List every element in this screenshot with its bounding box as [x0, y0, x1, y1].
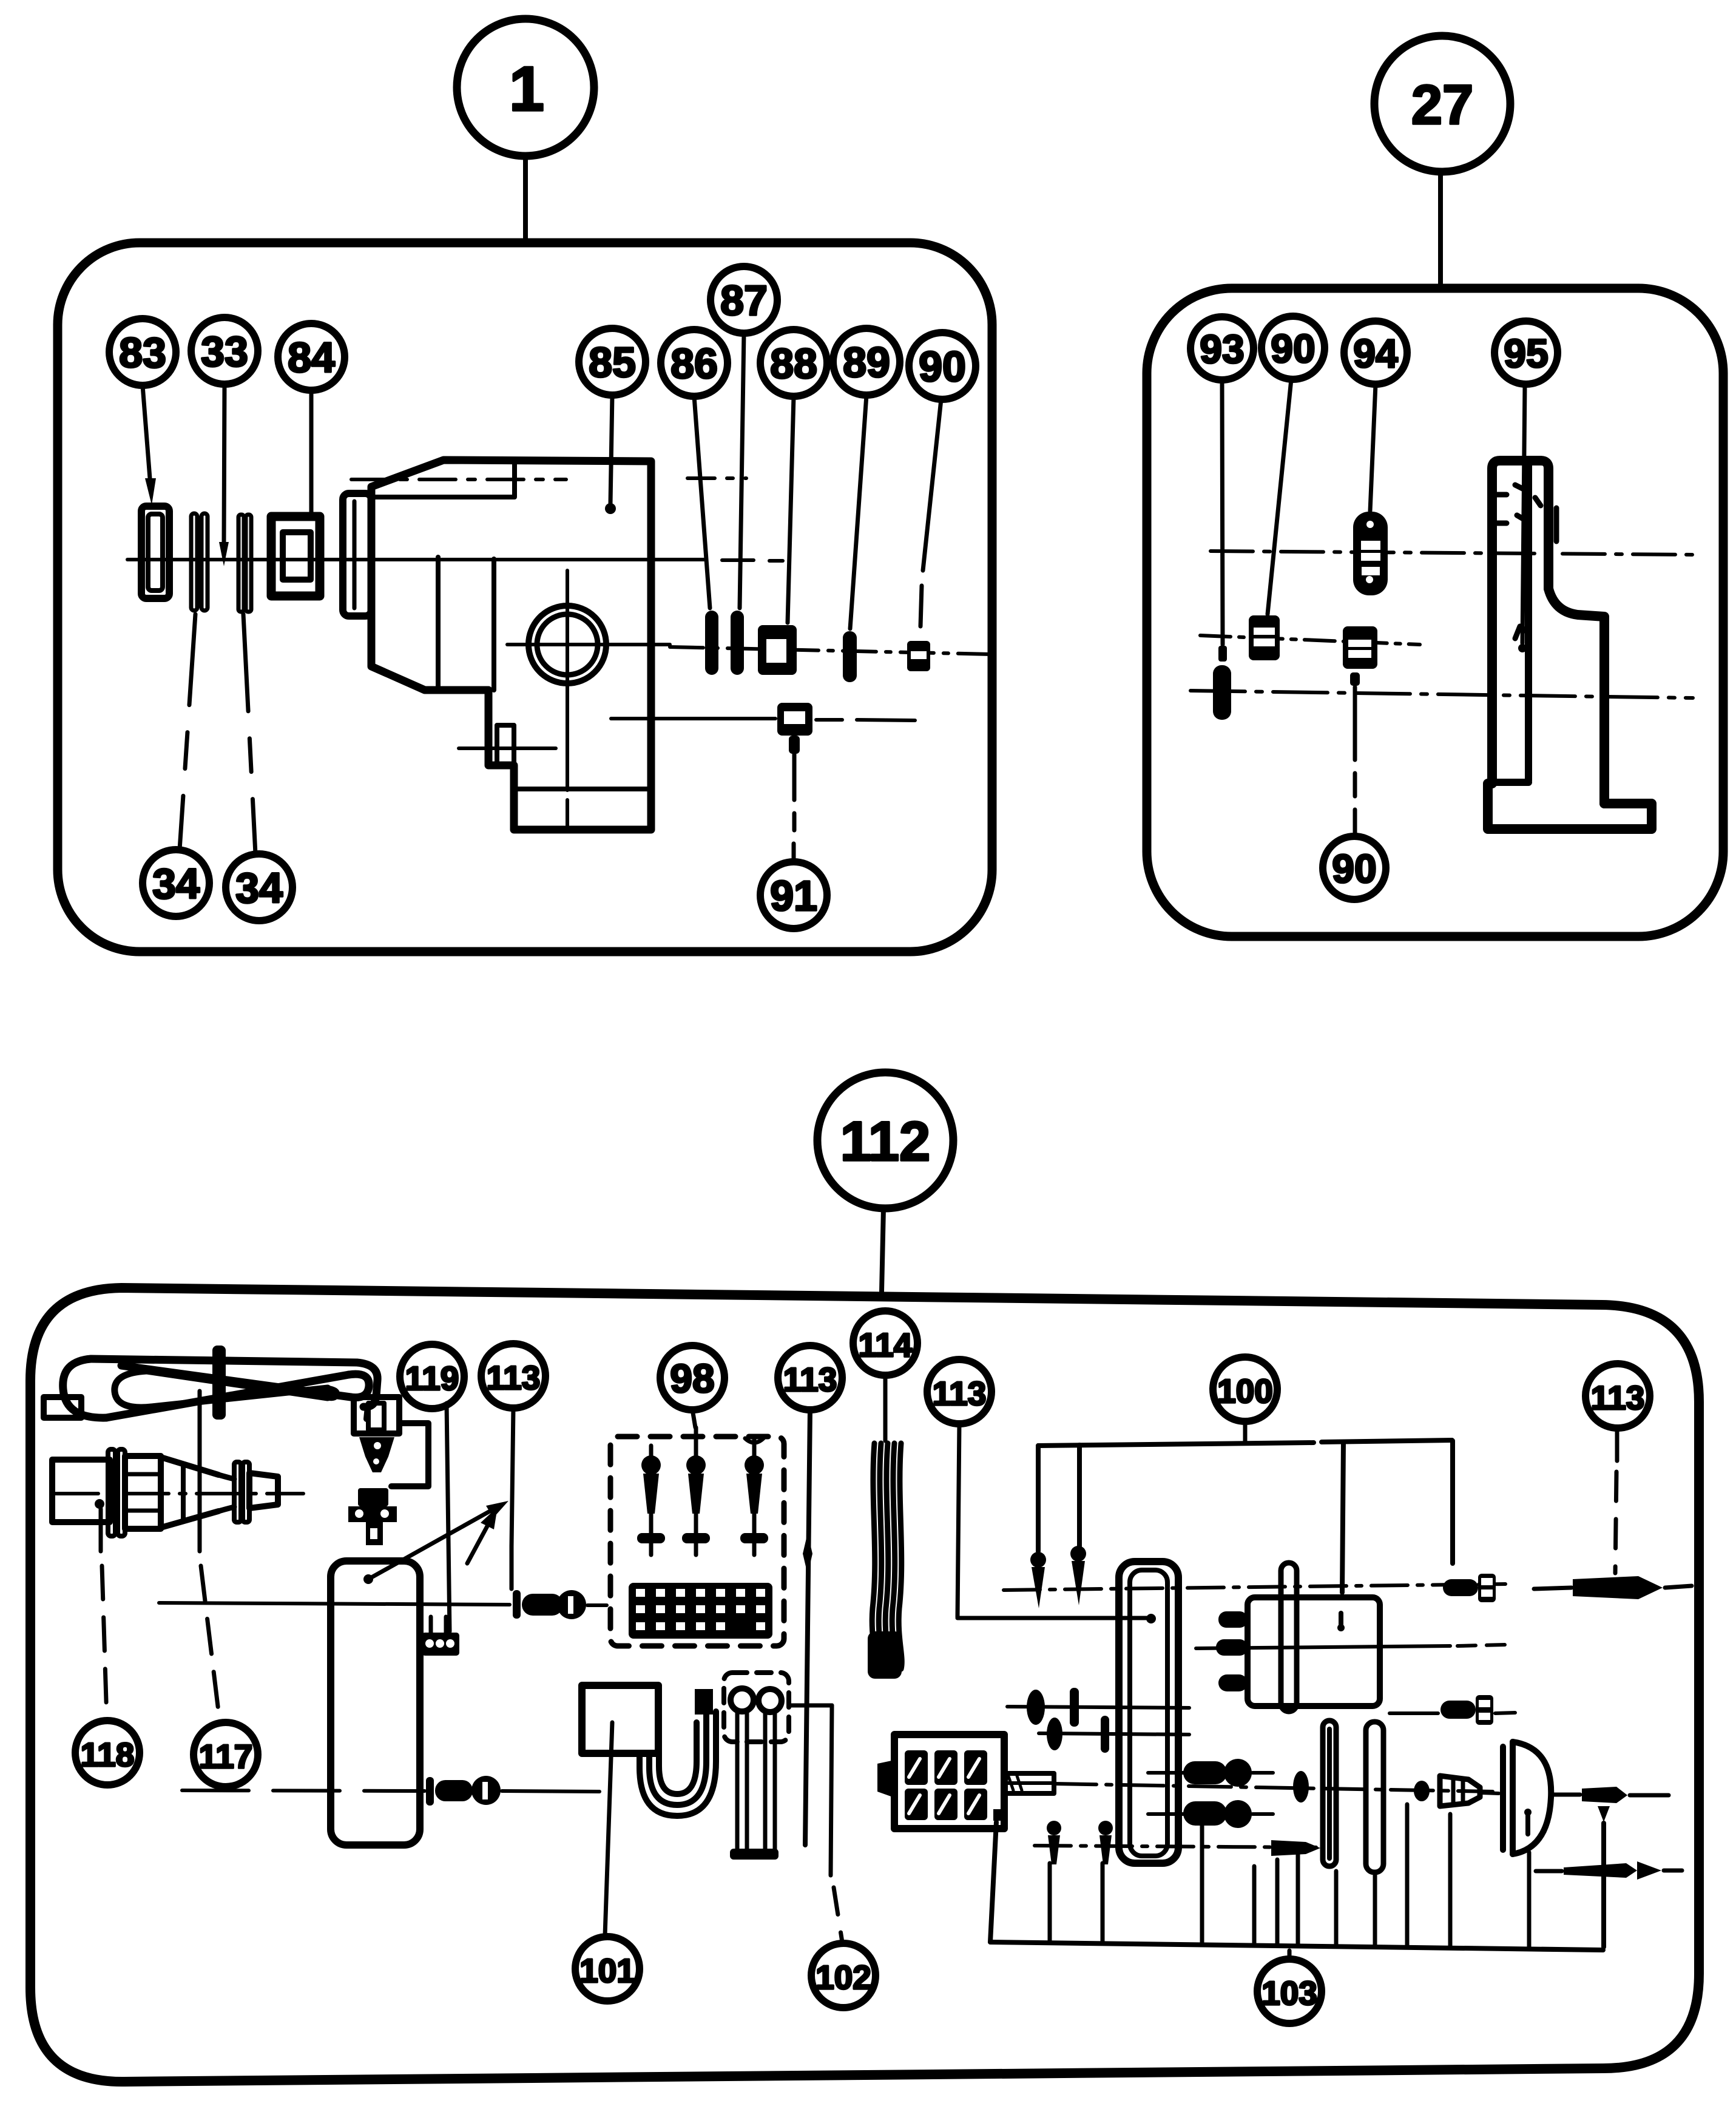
switch block left nub: [877, 1760, 894, 1798]
leader from callout 1 to panel: [523, 156, 528, 243]
part 84 square ring: [271, 516, 320, 596]
heater element right bend down: [357, 1363, 377, 1407]
lower screw washer: [426, 1777, 434, 1806]
harness 103 left riser: [990, 1822, 996, 1942]
leader 84: [309, 390, 314, 515]
svg-text:84: 84: [288, 334, 335, 381]
plate bolt 2: [1148, 1812, 1183, 1816]
heater element left cap: [63, 1359, 106, 1418]
heater element inner falling run: [147, 1371, 328, 1398]
callout 103: [1257, 1959, 1322, 2023]
harness 103 bus wire: [990, 1942, 1603, 1950]
svg-text:113: 113: [487, 1359, 541, 1396]
lug box dashed: [724, 1673, 789, 1742]
second lower axis: [1035, 1846, 1323, 1847]
callout 118: [75, 1721, 140, 1785]
part 118 flange: [108, 1449, 115, 1536]
gearbox left flange: [343, 493, 371, 616]
leader 119: [447, 1403, 450, 1631]
relay 100 body: [1248, 1597, 1380, 1706]
svg-text:27: 27: [1411, 74, 1473, 136]
U tube middle: [649, 1711, 706, 1805]
leader 117: [198, 1391, 202, 1551]
leader 94: [1370, 384, 1376, 511]
relay gasket strip: [1281, 1563, 1297, 1711]
gearbox body 85 outline: [371, 460, 651, 830]
svg-text:94: 94: [1353, 331, 1398, 376]
leader 113 b: [805, 1409, 810, 1845]
part 90 left nut: [1249, 615, 1280, 660]
part 86 washer: [705, 611, 718, 675]
pointer line to screw: [467, 1516, 493, 1563]
callout 33: [191, 317, 258, 384]
heater element inner right cap: [328, 1388, 337, 1398]
tall gasket bar filled: [1323, 1721, 1336, 1866]
lug wires: [737, 1711, 775, 1853]
svg-text:102: 102: [816, 1958, 871, 1996]
part 90 nut: [907, 641, 930, 671]
callout circle 112: [817, 1072, 953, 1208]
double ended screw: [1536, 1869, 1562, 1874]
leader 90 top: [1268, 379, 1291, 614]
leader 113 c: [958, 1423, 959, 1617]
callout 113 b: [778, 1346, 842, 1410]
callout 90 top: [1261, 316, 1325, 379]
callout 98: [660, 1346, 724, 1410]
leader 85 with dot: [610, 395, 612, 504]
leader 90 bottom: [1350, 672, 1360, 686]
svg-text:95: 95: [1504, 331, 1548, 376]
svg-text:90: 90: [1332, 846, 1376, 891]
switch block cells: [905, 1750, 987, 1820]
terminal strip in box 98: [629, 1583, 772, 1639]
washer row B: [1047, 1718, 1062, 1750]
leader from callout 27 to panel: [1438, 172, 1443, 288]
callout 100: [1213, 1357, 1277, 1421]
harness 100 top wire: [1038, 1440, 1452, 1446]
U tube outer: [640, 1711, 716, 1816]
washer row A: [1027, 1690, 1045, 1725]
upper assembly axis: [1004, 1584, 1505, 1590]
callout 34 left: [143, 850, 209, 916]
svg-text:98: 98: [670, 1356, 714, 1401]
svg-text:113: 113: [933, 1375, 987, 1412]
screw 113 a: [522, 1594, 563, 1616]
svg-text:101: 101: [579, 1952, 635, 1989]
bolt 2 in box 98: [694, 1427, 698, 1457]
second hex screw on washer axis: [1390, 1711, 1438, 1715]
leader 118 with dot: [95, 1499, 104, 1509]
callout 113 a: [481, 1344, 545, 1408]
U tube right end block: [695, 1689, 713, 1715]
leader 34 right: [243, 614, 255, 854]
leader 95 with dot: [1522, 384, 1525, 643]
svg-text:118: 118: [81, 1736, 135, 1773]
leader 113 a: [512, 1408, 513, 1546]
panel 112 enclosure border: [30, 1288, 1699, 2082]
leader 89: [850, 395, 866, 629]
part 114 wire coil: [872, 1443, 875, 1669]
svg-text:1: 1: [509, 54, 544, 124]
washer row B axis: [1039, 1733, 1189, 1735]
panel 27 lower axis: [1191, 691, 1693, 698]
callout circle 27: [1374, 36, 1510, 172]
thermostat funnel: [359, 1437, 394, 1472]
leader 88: [788, 396, 794, 623]
callout 34 right: [226, 854, 292, 921]
relay top pin mark: [1339, 1613, 1343, 1628]
callout 113 d: [1586, 1364, 1650, 1428]
callout 119: [400, 1344, 464, 1409]
panel 27 middle axis: [1200, 635, 1420, 645]
leader 83: [143, 385, 150, 478]
switch block corner lug: [993, 1809, 1001, 1821]
panel 27 upper axis: [1211, 551, 1693, 555]
part 87 washer: [731, 611, 744, 675]
svg-text:103: 103: [1261, 1974, 1317, 2012]
leader 90: [923, 399, 941, 570]
bracket right wall mark: [1554, 508, 1559, 541]
callout 95: [1495, 321, 1558, 384]
part 83 seal: [141, 506, 169, 598]
part 93 pin: [1218, 646, 1227, 662]
heater element top tube: [91, 1359, 357, 1363]
leader 86: [694, 396, 710, 608]
ring terminal 2: [758, 1689, 782, 1712]
leader 113 d: [1615, 1428, 1619, 1461]
axis through part 91: [611, 717, 775, 720]
switch block body: [894, 1735, 1004, 1829]
panel 1 enclosure border: [58, 243, 992, 952]
pointer line to plate: [363, 1574, 373, 1584]
U tube inner: [659, 1722, 697, 1794]
part 91 nut: [777, 703, 812, 736]
tall gasket bar open: [1366, 1722, 1383, 1872]
part 119 bracket: [391, 1423, 428, 1486]
svg-text:91: 91: [770, 872, 817, 919]
leader 87: [740, 333, 744, 608]
callout 91: [760, 862, 827, 929]
plug centerline: [56, 1492, 303, 1495]
screw 113 d: [1534, 1588, 1572, 1589]
leader 93: [1222, 380, 1223, 645]
callout 83: [109, 319, 176, 385]
part 90 right nut: [1343, 626, 1377, 669]
part 118 front flange: [234, 1462, 241, 1522]
svg-text:34: 34: [235, 864, 283, 912]
heater element falling run: [121, 1366, 351, 1397]
callout 90 bottom: [1323, 836, 1386, 899]
thermostat plate: [331, 1561, 420, 1845]
svg-text:113: 113: [783, 1361, 837, 1398]
svg-text:93: 93: [1200, 327, 1244, 371]
part 95 bracket plate: [1492, 461, 1549, 784]
callout 113 c: [927, 1359, 991, 1424]
svg-text:90: 90: [1271, 326, 1315, 371]
heater element inner left cap: [115, 1371, 152, 1407]
lower screw axis: [182, 1790, 425, 1791]
leader 114: [883, 1375, 888, 1441]
axis through parts 86-90: [670, 647, 990, 654]
svg-text:119: 119: [405, 1359, 459, 1397]
body bottom step: [514, 787, 651, 791]
upper roof centerline: [351, 478, 566, 481]
screw 113 a washer: [513, 1590, 521, 1619]
svg-text:117: 117: [199, 1738, 253, 1775]
harness 103 risers: [1050, 1804, 1529, 1949]
callout circle 1: [457, 19, 594, 156]
panel 27 enclosure border: [1147, 288, 1723, 936]
terminal box 98 dashed border: [610, 1437, 784, 1646]
dome axis: [1482, 1793, 1499, 1793]
callout 86: [661, 330, 728, 396]
boss vertical centerline: [566, 570, 569, 790]
leader 91: [789, 736, 800, 754]
leader 102: [789, 1704, 832, 1708]
bracket top slot details: [1496, 485, 1541, 523]
relay pins: [1218, 1611, 1248, 1628]
part 118 plug rear housing: [52, 1460, 110, 1522]
boss horizontal centerline: [507, 643, 670, 646]
washer on lower axis: [1293, 1771, 1309, 1803]
bullet screw on second axis: [1271, 1840, 1320, 1856]
leader 98: [692, 1409, 695, 1427]
callout 114: [853, 1311, 917, 1375]
ring terminal 1: [731, 1688, 754, 1711]
svg-text:100: 100: [1217, 1372, 1273, 1410]
svg-text:86: 86: [670, 340, 718, 387]
leader 34 left: [180, 614, 195, 850]
box 101: [582, 1685, 658, 1753]
thermostat plug body: [358, 1488, 388, 1506]
lower screw: [435, 1780, 473, 1801]
callout 102: [811, 1943, 876, 2008]
upper screw axis: [159, 1603, 510, 1605]
svg-text:85: 85: [589, 339, 636, 386]
hex screw on upper axis: [1443, 1579, 1478, 1596]
callout 84: [278, 323, 345, 390]
bracket inner hook detail: [1515, 626, 1527, 638]
bullet washer on axis: [1582, 1787, 1627, 1803]
relay axis: [1196, 1646, 1450, 1648]
part 118 cone: [161, 1457, 218, 1528]
leader 101: [605, 1722, 612, 1935]
main shaft centerline: [127, 558, 706, 561]
svg-text:87: 87: [720, 277, 768, 324]
connector plate outer: [1119, 1562, 1178, 1863]
heater element left tab: [44, 1397, 81, 1418]
heater element right lobe cap: [349, 1374, 369, 1397]
heater element center stud: [212, 1346, 226, 1420]
leader 100: [1243, 1421, 1248, 1443]
callout 101: [575, 1937, 640, 2001]
roof inner line: [371, 462, 515, 497]
standing screw 2 on lower axis: [1098, 1821, 1113, 1835]
svg-text:88: 88: [770, 340, 817, 387]
svg-text:89: 89: [843, 339, 890, 386]
part 33/34 washer pair A: [191, 513, 197, 611]
svg-text:34: 34: [152, 860, 200, 907]
connector plate inner: [1130, 1570, 1167, 1856]
lower main axis: [1054, 1784, 1493, 1792]
callout 94: [1344, 321, 1407, 384]
leader 33: [224, 384, 225, 542]
boss circle on body: [529, 606, 606, 683]
dome lens: [1500, 1747, 1506, 1850]
harness 100 wire drops: [1038, 1441, 1453, 1593]
harness terminal screw 2: [1070, 1546, 1086, 1562]
leader 103: [1288, 1951, 1292, 1959]
svg-text:114: 114: [859, 1326, 913, 1364]
washer row A axis: [1007, 1707, 1189, 1708]
bolt 1 in box 98: [649, 1446, 654, 1457]
part 89 washer: [843, 631, 857, 682]
switch shaft: [1004, 1773, 1054, 1793]
heater element inner rising run: [152, 1388, 328, 1407]
body left notch: [497, 725, 514, 764]
callout 89: [833, 328, 900, 395]
svg-text:112: 112: [840, 1111, 930, 1173]
callout 117: [194, 1722, 258, 1787]
part 88 square ring: [758, 625, 797, 675]
nozzle: [1440, 1776, 1480, 1806]
callout 88: [760, 330, 827, 396]
part 33/34 washer pair B: [238, 515, 244, 612]
svg-text:33: 33: [201, 328, 248, 375]
harness terminal screw 1: [1030, 1552, 1046, 1568]
heater element rising run: [106, 1375, 349, 1418]
bolt 3 in box 98: [745, 1437, 763, 1457]
standing screw 1 on lower axis: [1047, 1821, 1061, 1835]
body inner verticals: [438, 557, 494, 690]
terminal comb: [422, 1633, 459, 1656]
down arrow under washer: [1598, 1806, 1610, 1822]
plate bolt 1: [1148, 1771, 1183, 1775]
part 118 body: [125, 1456, 161, 1529]
svg-text:83: 83: [119, 329, 166, 376]
callout 85: [579, 328, 646, 395]
part 119 clip: [354, 1397, 399, 1434]
svg-text:113: 113: [1591, 1379, 1645, 1417]
callout 93: [1191, 317, 1254, 380]
part 118 tip: [249, 1473, 278, 1508]
callout 90: [909, 333, 976, 399]
callout 87: [711, 266, 777, 333]
part 94 grooved pin: [1353, 512, 1388, 595]
leader from callout 112 to panel: [882, 1208, 883, 1291]
svg-text:90: 90: [919, 343, 966, 390]
